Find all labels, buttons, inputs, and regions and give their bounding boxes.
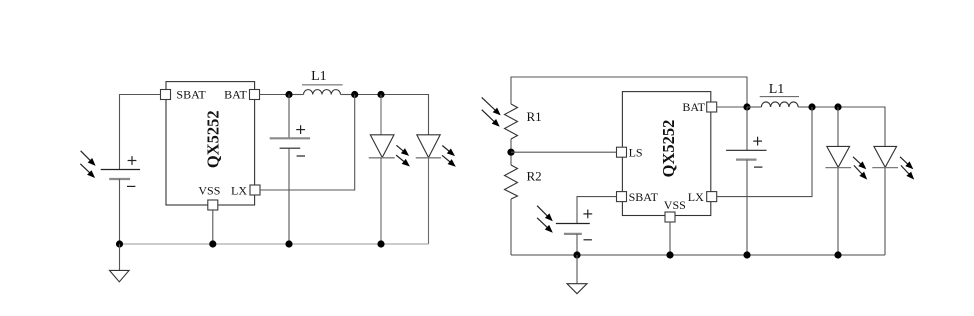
solar cell PV (right circuit) <box>556 210 592 256</box>
battery BT2 (right circuit storage) <box>726 107 766 255</box>
wire solar cell to bottom rail <box>119 179 121 244</box>
junction battery top node (right) <box>743 103 750 110</box>
light arrows into solar cell (right) <box>537 206 553 233</box>
svg-text:LX: LX <box>231 184 247 198</box>
battery BT1 (left circuit storage) <box>270 95 310 245</box>
pin LX (right IC) <box>688 190 717 204</box>
LED D3 (right) <box>825 107 867 255</box>
svg-text:LS: LS <box>629 145 643 159</box>
solar cell PV (left circuit) <box>101 156 140 186</box>
junction battery bottom (left) <box>285 240 292 247</box>
LED D4 (right) <box>872 146 914 255</box>
wire LX loop (right): LX pin right then up to L1 node <box>717 107 812 197</box>
junction LED1 top node (right) <box>834 103 841 110</box>
junction solar bottom node (right) <box>573 251 580 258</box>
svg-text:QX5252: QX5252 <box>204 110 223 168</box>
svg-text:LX: LX <box>688 190 704 204</box>
junction VSS node (left) <box>209 240 216 247</box>
resistor R1 (photoresistor, right) <box>505 104 542 139</box>
LED D1 (left) <box>369 95 410 245</box>
pin LS (right IC) <box>617 145 643 159</box>
wire L1 node to LED rail (right) <box>812 107 885 146</box>
svg-text:VSS: VSS <box>198 184 220 198</box>
junction L1 right node <box>808 103 815 110</box>
ground (right) <box>567 255 587 294</box>
wire SBAT feed to solar cell (right) <box>577 197 617 224</box>
svg-text:R2: R2 <box>527 169 542 184</box>
svg-text:SBAT: SBAT <box>629 190 659 204</box>
pin BAT (left IC) <box>224 88 259 102</box>
junction node L1 right (left) <box>351 91 358 98</box>
wire R1 to R2 node <box>510 139 512 165</box>
wire top rail (right) <box>511 77 747 107</box>
wire LX loop (left): LX pin right then up to L1 node <box>260 95 355 191</box>
svg-text:QX5252: QX5252 <box>659 120 678 178</box>
junction LED1 bottom node (right) <box>834 251 841 258</box>
wire bottom rail (left) <box>120 243 429 245</box>
light arrows into R1 <box>482 97 501 126</box>
wire BAT pin to battery node (right) <box>717 106 747 108</box>
junction node BAT/L1 (left) <box>285 91 292 98</box>
wire LS feed <box>511 151 617 153</box>
wire VSS stub (left) <box>212 210 214 244</box>
light arrows into solar cell (left) <box>80 151 95 178</box>
pin BAT (right IC) <box>682 100 716 114</box>
junction LED1 bottom (left) <box>377 240 384 247</box>
junction node LED1 top (left) <box>377 91 384 98</box>
junction R1/R2 node <box>507 149 514 156</box>
pin VSS (right IC) <box>664 198 686 222</box>
svg-text:R1: R1 <box>527 109 542 124</box>
wire VSS stub (right) <box>669 222 671 255</box>
svg-text:BAT: BAT <box>682 100 705 114</box>
pin SBAT (right IC) <box>617 190 659 204</box>
inductor L1 (right) <box>747 82 812 107</box>
svg-text:VSS: VSS <box>664 198 686 212</box>
svg-text:L1: L1 <box>311 69 327 84</box>
resistor R2 (right) <box>505 165 542 199</box>
ground (left) <box>110 244 130 282</box>
wire BAT pin to L1 node <box>260 94 290 96</box>
svg-text:L1: L1 <box>769 82 785 97</box>
op IC U1 QX5252 (left) body <box>166 82 255 205</box>
wire L1 node to LED rail (left top rail) <box>355 95 429 135</box>
op IC U2 QX5252 (right) body <box>622 92 710 216</box>
inductor L1 (left) <box>289 69 355 95</box>
wire R2 to bottom rail (right) <box>511 199 885 255</box>
junction battery bottom node (right) <box>743 251 750 258</box>
junction VSS node (right) <box>666 251 673 258</box>
svg-text:BAT: BAT <box>224 88 247 102</box>
wire top-left SBAT feed <box>120 95 161 170</box>
junction ground node (left) <box>116 240 123 247</box>
LED D2 (left) <box>416 135 456 244</box>
pin SBAT (left IC) <box>161 88 207 102</box>
pin LX (left IC) <box>231 184 260 198</box>
svg-text:SBAT: SBAT <box>176 88 206 102</box>
pin VSS (left IC) <box>198 184 220 210</box>
